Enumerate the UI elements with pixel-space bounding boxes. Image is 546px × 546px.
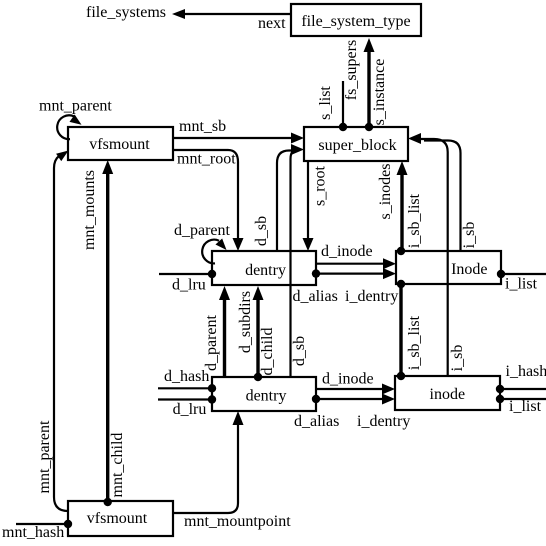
box vfsmount (bottom) — [68, 501, 173, 536]
wire mnt_parent self-loop — [57, 115, 84, 140]
svg-text:d_parent: d_parent — [203, 314, 220, 371]
svg-text:mnt_mountpoint: mnt_mountpoint — [184, 513, 291, 530]
svg-text:mnt_hash: mnt_hash — [2, 524, 64, 541]
svg-text:d_sb: d_sb — [291, 336, 308, 366]
wire i_dentry (upper) — [316, 268, 396, 279]
wire d_subdirs / d_child — [253, 286, 264, 377]
box vfsmount (top) — [68, 127, 173, 160]
wire next (file_system_type to file_systems) — [172, 9, 291, 19]
wire mnt_hash — [16, 523, 68, 525]
svg-text:mnt_sb: mnt_sb — [179, 118, 226, 135]
node mnt_hash dot — [64, 520, 72, 528]
svg-text:i_hash: i_hash — [506, 363, 546, 380]
wire mnt_sb arrow — [173, 133, 304, 144]
svg-text:vfsmount: vfsmount — [87, 510, 148, 527]
svg-text:inode: inode — [430, 386, 466, 403]
svg-text:next: next — [258, 15, 286, 32]
wire d_sb upper dentry to super_block — [277, 151, 296, 252]
node i_hash dot — [496, 385, 504, 393]
svg-text:d_lru: d_lru — [172, 277, 206, 294]
wire mnt_mounts / mnt_child — [102, 160, 113, 502]
box Inode (upper) — [396, 251, 501, 284]
svg-text:i_list: i_list — [509, 398, 542, 415]
svg-text:i_dentry: i_dentry — [345, 288, 398, 305]
wire i_dentry (lower) — [316, 394, 395, 405]
wire d_parent between dentries — [219, 286, 230, 377]
svg-text:d_hash: d_hash — [164, 368, 209, 385]
node d_lru dot (lower) — [208, 395, 216, 403]
svg-text:s_inodes: s_inodes — [377, 164, 394, 220]
svg-text:d_subdirs: d_subdirs — [237, 291, 254, 353]
node i_sb_list dot top (upper Inode) — [397, 247, 405, 255]
node d_lru dot (upper) — [208, 270, 216, 278]
wire d_hash — [158, 387, 212, 389]
wire mnt_root — [173, 150, 244, 251]
node s_instance dot — [365, 123, 373, 131]
svg-text:d_parent: d_parent — [174, 222, 231, 239]
svg-text:dentry: dentry — [245, 262, 286, 279]
box dentry (lower) — [212, 377, 316, 411]
box super_block — [304, 127, 408, 161]
svg-text:mnt_parent: mnt_parent — [39, 98, 112, 115]
node i_sb_list dot (lower inode) — [397, 372, 405, 380]
wire s_instance / fs_supers arrow — [364, 38, 375, 127]
svg-text:fs_supers: fs_supers — [343, 40, 360, 100]
svg-text:d_child: d_child — [259, 328, 276, 376]
svg-text:vfsmount: vfsmount — [89, 136, 150, 153]
svg-text:file_system_type: file_system_type — [301, 13, 410, 30]
box inode (lower) — [395, 376, 500, 410]
wire i_list (lower) — [500, 398, 546, 400]
wire i_sb lower inode to super_block — [408, 133, 448, 376]
wire s_inodes / i_sb_list arrow — [397, 161, 408, 251]
svg-text:i_sb_list: i_sb_list — [406, 315, 423, 370]
wire i_sb upper Inode to super_block — [424, 141, 461, 252]
svg-text:dentry: dentry — [246, 388, 287, 405]
wire d_inode (lower) — [316, 384, 395, 395]
wire s_root — [303, 161, 314, 251]
wire d_inode (upper) — [316, 258, 396, 269]
svg-text:d_alias: d_alias — [294, 413, 339, 430]
wire i_hash — [500, 388, 546, 390]
wire d_lru (lower) — [158, 398, 212, 400]
svg-text:s_list: s_list — [317, 86, 334, 120]
svg-text:mnt_root: mnt_root — [177, 151, 236, 168]
svg-text:d_sb: d_sb — [253, 216, 270, 246]
node d_hash dot — [208, 384, 216, 392]
svg-text:super_block: super_block — [318, 137, 396, 154]
svg-text:s_instance: s_instance — [371, 59, 388, 126]
node s_list dot — [339, 123, 347, 131]
svg-text:d_inode: d_inode — [322, 371, 374, 388]
box dentry (upper) — [212, 251, 316, 285]
wire i_sb_list between inodes — [399, 284, 402, 376]
wire mnt_parent (bottom vfsmount to top vfsmount) — [54, 147, 71, 511]
wire d_lru (upper) — [159, 273, 212, 275]
svg-text:i_sb: i_sb — [461, 222, 478, 249]
svg-text:i_dentry: i_dentry — [357, 413, 410, 430]
svg-text:mnt_child: mnt_child — [109, 433, 126, 498]
svg-text:d_alias: d_alias — [293, 288, 338, 305]
svg-text:Inode: Inode — [451, 261, 487, 278]
node mnt_child dot — [104, 498, 112, 506]
wire mnt_mountpoint — [173, 411, 244, 513]
node i_list dot (upper) — [497, 270, 505, 278]
box file_system_type — [291, 4, 421, 36]
node i_list dot (lower) — [496, 395, 504, 403]
svg-text:s_root: s_root — [312, 165, 329, 206]
svg-text:i_sb_list: i_sb_list — [406, 193, 423, 248]
svg-text:mnt_parent: mnt_parent — [36, 420, 53, 493]
svg-text:i_list: i_list — [505, 276, 538, 293]
node d_child dot — [254, 373, 262, 381]
svg-text:i_sb: i_sb — [449, 345, 466, 372]
wire s_list stub — [342, 81, 344, 127]
svg-text:d_lru: d_lru — [173, 401, 207, 418]
wire d_parent self-loop on upper dentry — [202, 238, 230, 263]
svg-text:d_inode: d_inode — [321, 243, 373, 260]
node i_dentry dot (upper) — [312, 269, 320, 277]
node i_dentry dot (lower) — [312, 395, 320, 403]
node i_sb_list dot bottom (upper Inode) — [397, 280, 405, 288]
svg-text:mnt_mounts: mnt_mounts — [81, 170, 98, 250]
svg-text:file_systems: file_systems — [86, 4, 166, 21]
wire d_sb lower dentry to super_block — [291, 144, 305, 377]
wire i_list (upper) — [501, 273, 546, 275]
